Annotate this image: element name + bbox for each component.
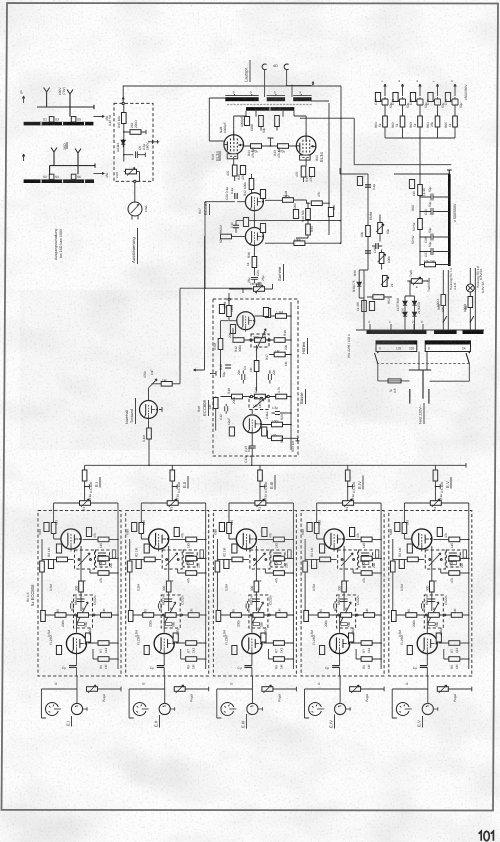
- bass row resistors: [232, 394, 243, 399]
- wire between tubes: [252, 192, 255, 228]
- node: [122, 102, 124, 104]
- jack socket: [284, 64, 288, 70]
- resistor: [373, 295, 384, 300]
- cathode chain lower tube: [252, 257, 257, 268]
- resistor screen: [259, 116, 264, 127]
- wire: [50, 156, 95, 174]
- cathode resistor: [301, 166, 306, 177]
- wire echo trunk: [180, 202, 252, 384]
- switch: [443, 316, 447, 323]
- node arrow: [122, 97, 124, 99]
- wire right drop: [430, 364, 470, 382]
- feed resistor: [249, 179, 254, 190]
- meter M1: [128, 202, 142, 216]
- resistor: [366, 226, 371, 237]
- extra value labels top cluster: [219, 97, 336, 281]
- wire: [265, 70, 312, 97]
- mid resistor: [254, 361, 259, 372]
- treble row resistors: [233, 338, 244, 343]
- antenna tap: [75, 149, 81, 158]
- resistor screen 2: [275, 116, 280, 127]
- pot trim: [411, 279, 422, 284]
- switch: [470, 316, 474, 323]
- cap: [258, 283, 262, 285]
- HT bus bar thick: [448, 174, 451, 266]
- cap: [225, 404, 228, 414]
- switch bank S1 bar: [24, 122, 94, 126]
- lamination line: [227, 104, 312, 106]
- page number 101: [479, 831, 494, 841]
- tube echo follower: [140, 401, 158, 421]
- wire secondary left lead: [209, 98, 225, 141]
- secondary winding segment b: [267, 95, 285, 97]
- resistor 220: [130, 130, 141, 135]
- filter cap: [420, 234, 449, 241]
- wire left drop: [377, 364, 379, 381]
- wire to taps: [93, 115, 104, 117]
- anode resistor: [276, 314, 287, 319]
- pot: [378, 223, 383, 234]
- wire primary leads to EL34 anodes: [234, 111, 306, 133]
- antenna tap: [67, 90, 73, 99]
- grid resistor: [278, 144, 289, 149]
- resistor: [294, 241, 305, 246]
- resistor: [362, 301, 367, 312]
- switch arm right: [466, 353, 469, 364]
- output resistor: [272, 436, 283, 441]
- wire: [340, 86, 342, 244]
- wire top: [123, 86, 341, 103]
- resistor below: [147, 428, 152, 439]
- jack socket: [262, 64, 266, 70]
- resistor D45: [122, 113, 127, 124]
- grid resistor: [251, 144, 262, 149]
- input pot above box: [254, 287, 265, 292]
- label box: [243, 218, 248, 227]
- bridge diode: [412, 311, 416, 319]
- mains plug: [419, 352, 427, 371]
- label boxes: [375, 93, 380, 102]
- antenna tap 100V: [44, 88, 50, 97]
- resistor bottom: [425, 262, 436, 267]
- channel strip E I: [38, 465, 121, 718]
- wire to taps: [93, 172, 104, 174]
- wire: [172, 383, 180, 385]
- cap: [365, 185, 371, 187]
- secondary winding segment a: [225, 95, 258, 97]
- dashed pot box: [251, 334, 269, 347]
- terminal right edge: [148, 140, 159, 144]
- node circle: [228, 298, 230, 300]
- label 1k: [240, 166, 245, 175]
- output node tick: [250, 455, 255, 457]
- resistor: [161, 382, 172, 387]
- wire secondary to rail: [311, 100, 329, 102]
- filter cap: [420, 248, 449, 255]
- terminal arrow left: [22, 154, 24, 161]
- extra labels tone box: [219, 302, 295, 463]
- filter cap: [420, 208, 449, 215]
- resistor: [468, 297, 473, 308]
- end terminal: [465, 463, 467, 468]
- entry resistor: [227, 306, 232, 317]
- channel strip E V: [389, 465, 472, 718]
- bass pot arrow: [253, 399, 264, 408]
- tube Rö7b: [245, 228, 263, 248]
- left column resistor: [218, 339, 223, 350]
- anode resistor: [272, 422, 283, 427]
- pilot lamp: [466, 284, 474, 292]
- bus: [385, 137, 455, 139]
- extra labels PSU: [353, 99, 483, 312]
- node circles: [250, 339, 252, 341]
- tube pin terminal: [159, 407, 162, 412]
- channel strip E IV: [301, 465, 384, 718]
- coupling cap: [235, 193, 237, 199]
- resistor: [306, 209, 311, 220]
- switch bank S2 bar: [24, 179, 94, 183]
- left resistor: [213, 398, 218, 409]
- grid leak center: [268, 138, 274, 146]
- node bottom: [134, 180, 136, 182]
- potentiometer: [126, 169, 137, 174]
- heater rail 2: [470, 268, 475, 330]
- bridge diode: [403, 300, 407, 308]
- wire: [363, 270, 365, 330]
- filter cap: [420, 194, 449, 201]
- wire from tone box: [251, 456, 253, 465]
- wire down: [419, 138, 421, 174]
- terminal on left edge: [210, 371, 216, 376]
- cap: [365, 251, 371, 253]
- diode EM84: [357, 281, 361, 289]
- contact tab: [71, 117, 76, 122]
- contact tab: [71, 174, 76, 179]
- screen taps: [256, 111, 283, 117]
- channel strip E II: [126, 465, 209, 718]
- wire: [69, 98, 71, 117]
- bass pot dashed box: [249, 398, 269, 410]
- inner rail right: [290, 302, 292, 450]
- wire: [340, 168, 368, 270]
- terminal: [447, 170, 452, 174]
- diode AA112: [121, 139, 125, 147]
- feedback tap arrow: [312, 82, 314, 86]
- channel strip E III: [213, 465, 296, 718]
- resistor: [306, 224, 311, 235]
- tube Rö6a: [237, 312, 255, 332]
- tube Rö9 EL34: [296, 132, 316, 160]
- wire: [394, 173, 449, 175]
- label box: [230, 325, 235, 334]
- input wire: [205, 201, 245, 203]
- resistor: [441, 295, 446, 306]
- wire: [37, 96, 94, 109]
- bridge diode: [403, 311, 407, 319]
- tube Rö7a: [245, 193, 263, 213]
- treble pot arrow: [256, 329, 266, 351]
- terminal arrow left: [22, 96, 24, 103]
- heater rail 1: [443, 270, 448, 330]
- tube Rö6b: [243, 415, 261, 435]
- cathode resistor: [232, 165, 237, 176]
- pot: [149, 379, 157, 388]
- feedback wire: [236, 220, 340, 222]
- wire summe down to tone box: [256, 284, 258, 294]
- rail right: [307, 103, 330, 235]
- bridge diode: [412, 300, 416, 308]
- contact tab: [49, 174, 54, 179]
- coupling dashed: [377, 363, 470, 365]
- primary winding bar Tr1: [246, 107, 294, 111]
- resistor 1W row: [263, 308, 268, 317]
- node circles: [250, 395, 252, 397]
- coupling cap lower: [233, 221, 239, 233]
- wire: [300, 118, 451, 165]
- antenna tap 16ohm: [51, 148, 57, 157]
- cap: [372, 243, 382, 249]
- dashed box: [213, 299, 298, 456]
- chassis ground bar: [356, 329, 484, 331]
- resistor right: [274, 352, 285, 357]
- label boxes: [229, 427, 234, 436]
- primary winding left: [376, 341, 417, 352]
- contact tab: [49, 117, 54, 122]
- cathode cap: [249, 434, 256, 456]
- grid resistor: [221, 234, 232, 239]
- tube Rö8 EL34: [224, 131, 244, 159]
- secondary winding segment c: [293, 95, 311, 97]
- switch arm left: [375, 353, 378, 364]
- resistor 1W: [418, 185, 423, 196]
- cap 0.15u: [272, 412, 285, 415]
- anode resistor right: [283, 198, 294, 203]
- dashed box: [114, 103, 153, 181]
- label box: [328, 208, 333, 217]
- bypass cap: [251, 278, 258, 284]
- primary winding right: [425, 341, 470, 352]
- winding tap labels: [235, 94, 302, 96]
- wire: [419, 174, 421, 266]
- fuse Si: [388, 379, 401, 383]
- pin stubs: [370, 324, 423, 330]
- bus wire: [85, 464, 466, 466]
- pot: [383, 276, 388, 287]
- pot: [379, 253, 384, 264]
- resistor 50W: [418, 219, 423, 230]
- resistor: [311, 201, 322, 206]
- capacitor C6: [124, 151, 146, 158]
- cap pair bass: [242, 370, 245, 383]
- cap left: [225, 365, 231, 368]
